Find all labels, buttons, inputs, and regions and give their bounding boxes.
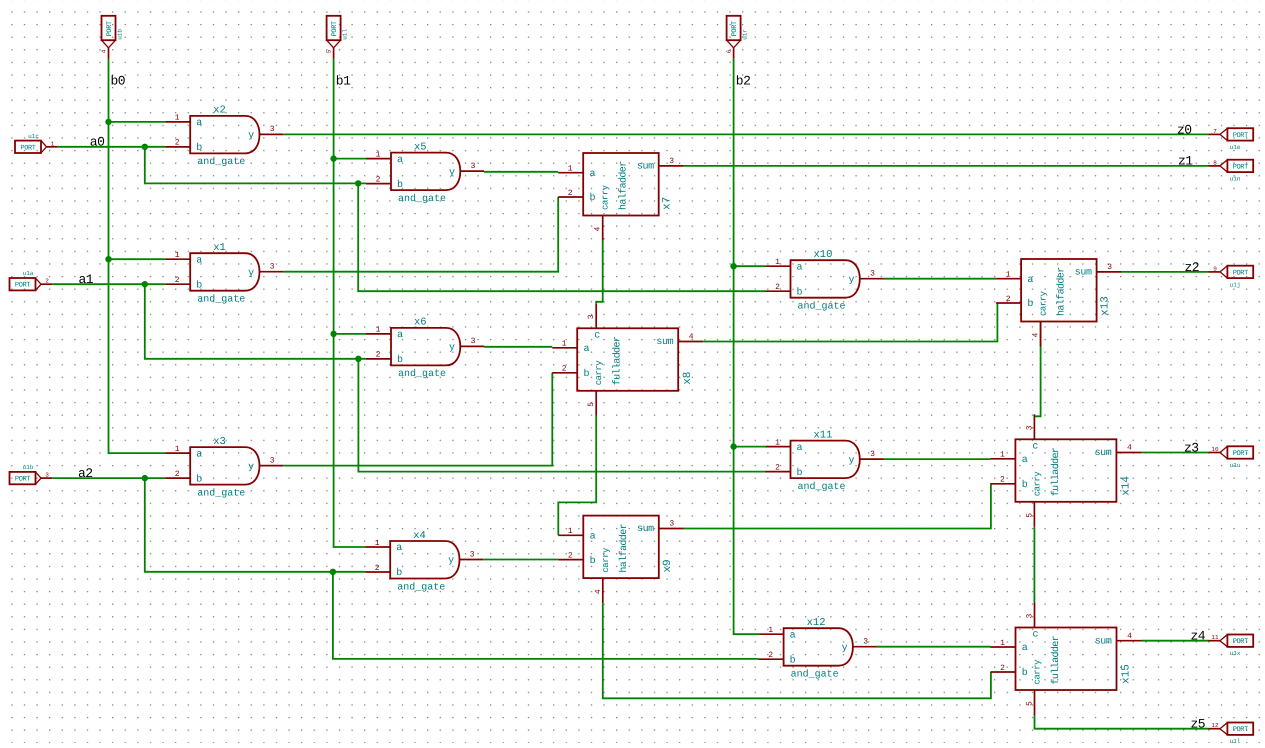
svg-text:11: 11 xyxy=(1211,634,1219,641)
svg-text:y: y xyxy=(248,268,254,279)
junction a1 branch xyxy=(142,281,148,287)
svg-text:x7: x7 xyxy=(662,197,674,210)
svg-text:u1b: u1b xyxy=(117,29,124,40)
svg-text:2: 2 xyxy=(376,351,381,360)
svg-text:3: 3 xyxy=(270,125,275,134)
svg-text:x3: x3 xyxy=(213,436,226,448)
svg-text:x13: x13 xyxy=(1100,296,1112,316)
full-adder X8 xyxy=(552,303,703,416)
svg-text:and_gate: and_gate xyxy=(798,481,846,493)
wire x10 output to x13 pin a xyxy=(884,278,997,280)
svg-text:PORT: PORT xyxy=(1233,450,1248,458)
svg-text:1: 1 xyxy=(175,114,180,123)
junction a0/x5b xyxy=(355,180,361,186)
wire x9 sum to x14 pin b xyxy=(684,484,991,529)
svg-text:and_gate: and_gate xyxy=(398,368,446,380)
svg-text:2: 2 xyxy=(568,189,573,198)
output port z0 xyxy=(1209,128,1254,151)
svg-text:8: 8 xyxy=(1213,159,1217,166)
svg-text:and_gate: and_gate xyxy=(197,156,245,168)
svg-text:u1r: u1r xyxy=(742,29,749,40)
svg-text:y: y xyxy=(448,556,454,567)
wire x5 output to x7 pin a xyxy=(484,171,558,173)
svg-text:u1l: u1l xyxy=(1230,738,1241,743)
svg-text:PORT: PORT xyxy=(15,282,30,290)
wire a1 down to x11 pin b xyxy=(358,359,765,472)
svg-text:a: a xyxy=(397,155,403,166)
svg-text:b0: b0 xyxy=(111,74,126,89)
svg-text:z0: z0 xyxy=(1177,122,1192,137)
and-gate X1 xyxy=(165,242,283,306)
svg-text:fulladder: fulladder xyxy=(612,336,624,385)
svg-text:b: b xyxy=(1027,298,1033,310)
input port b0 xyxy=(101,16,124,59)
svg-text:a: a xyxy=(584,344,590,355)
svg-text:1: 1 xyxy=(562,340,567,349)
wire b0 to x2 pin a xyxy=(109,121,166,123)
junction b1/x5a xyxy=(330,155,336,161)
svg-text:u1u: u1u xyxy=(1230,462,1241,469)
svg-text:c: c xyxy=(1032,441,1038,452)
junction a2 branch xyxy=(142,475,148,481)
and-gate X3 xyxy=(165,436,283,500)
half-adder X13 xyxy=(996,259,1122,347)
wire x15 carry to port z5 xyxy=(1035,715,1209,729)
wire x8 carry to x9 pin a xyxy=(558,416,596,536)
svg-text:fulladder: fulladder xyxy=(1050,447,1062,496)
and-gate X5 xyxy=(366,141,484,205)
svg-text:a: a xyxy=(196,118,202,129)
junction a2/x4b xyxy=(330,569,336,575)
svg-text:a: a xyxy=(1022,455,1028,466)
svg-text:7: 7 xyxy=(1213,128,1217,135)
svg-text:y: y xyxy=(449,167,455,178)
svg-text:PORT: PORT xyxy=(15,476,30,484)
svg-text:1: 1 xyxy=(376,326,381,335)
svg-text:z3: z3 xyxy=(1184,440,1199,455)
svg-text:z4: z4 xyxy=(1191,629,1206,644)
svg-text:u1x: u1x xyxy=(1230,650,1241,657)
and-gate X10 xyxy=(766,249,884,313)
svg-text:b: b xyxy=(1022,479,1028,491)
svg-text:3: 3 xyxy=(1026,614,1035,619)
svg-text:u1l: u1l xyxy=(342,29,349,40)
svg-text:carry: carry xyxy=(1033,659,1043,685)
svg-text:3: 3 xyxy=(1025,425,1034,430)
svg-text:b: b xyxy=(196,279,202,291)
svg-text:a: a xyxy=(1022,643,1028,654)
svg-text:1: 1 xyxy=(1000,451,1005,460)
wire x1 output to x7 pin b xyxy=(283,197,558,272)
svg-text:a: a xyxy=(1027,275,1033,286)
svg-text:3: 3 xyxy=(870,270,875,279)
svg-text:a: a xyxy=(196,449,202,460)
svg-text:x8: x8 xyxy=(682,372,694,385)
svg-text:4: 4 xyxy=(1127,632,1132,641)
wire net b0 vertical from port xyxy=(109,59,166,453)
svg-text:u1b: u1b xyxy=(23,464,34,471)
svg-text:4: 4 xyxy=(1127,444,1132,453)
svg-text:x1: x1 xyxy=(213,242,226,254)
svg-text:x4: x4 xyxy=(413,530,426,542)
svg-text:3: 3 xyxy=(669,520,674,529)
svg-text:a: a xyxy=(397,330,403,341)
svg-text:3: 3 xyxy=(270,456,275,465)
wire x2 output to port z0 xyxy=(283,133,1208,135)
wire x14 carry to x15 pin c xyxy=(1033,527,1035,603)
svg-text:y: y xyxy=(449,343,455,354)
junction b2/x11a xyxy=(730,443,736,449)
svg-text:b: b xyxy=(397,354,403,366)
output port z3 xyxy=(1209,446,1254,469)
svg-text:u1j: u1j xyxy=(1230,281,1241,288)
svg-text:y: y xyxy=(848,455,854,466)
svg-text:sum: sum xyxy=(637,162,654,173)
svg-text:b: b xyxy=(590,192,596,204)
svg-text:a: a xyxy=(797,262,803,273)
svg-text:sum: sum xyxy=(1095,448,1112,459)
svg-text:and_gate: and_gate xyxy=(197,294,245,306)
svg-text:4: 4 xyxy=(1032,333,1041,338)
svg-text:u1c: u1c xyxy=(28,133,39,140)
svg-text:a1: a1 xyxy=(79,272,94,287)
input port a1 xyxy=(10,270,53,290)
svg-text:b: b xyxy=(797,286,803,298)
svg-text:3: 3 xyxy=(45,472,49,479)
output port z4 xyxy=(1209,634,1254,657)
svg-text:a: a xyxy=(790,630,796,641)
svg-text:PORT: PORT xyxy=(1233,132,1248,140)
half-adder X7 xyxy=(558,153,684,241)
svg-text:z1: z1 xyxy=(1178,154,1193,169)
svg-text:b: b xyxy=(196,473,202,485)
full-adder X15 xyxy=(991,603,1142,716)
wire net b1 vertical from port to x4 pin a xyxy=(334,59,366,547)
svg-text:10: 10 xyxy=(1211,446,1219,453)
input port b2 xyxy=(726,16,749,59)
svg-text:3: 3 xyxy=(587,314,596,319)
svg-text:9: 9 xyxy=(1213,265,1217,272)
svg-text:b: b xyxy=(590,555,596,567)
output port z5 xyxy=(1209,722,1254,745)
and-gate X6 xyxy=(366,317,484,381)
svg-text:1: 1 xyxy=(375,539,380,548)
svg-text:2: 2 xyxy=(375,564,380,573)
wire x12 output to x15 pin a xyxy=(877,646,991,648)
svg-text:carry: carry xyxy=(594,360,604,386)
junction a0 branch xyxy=(142,144,148,150)
svg-text:sum: sum xyxy=(656,337,673,348)
svg-text:x2: x2 xyxy=(213,105,226,117)
svg-text:b: b xyxy=(196,142,202,154)
input port a0 xyxy=(15,133,58,153)
svg-text:u1n: u1n xyxy=(1230,175,1241,182)
junction b0/x2a xyxy=(105,119,111,125)
svg-text:3: 3 xyxy=(270,263,275,272)
svg-text:carry: carry xyxy=(1039,290,1049,316)
wire net a1 from port to x1 pin b xyxy=(52,283,165,285)
junction b0/x1a xyxy=(105,256,111,262)
svg-text:1: 1 xyxy=(768,626,773,635)
svg-text:sum: sum xyxy=(1095,636,1112,647)
svg-text:sum: sum xyxy=(1075,268,1092,279)
wire x14 sum to port z3 xyxy=(1141,452,1208,454)
svg-text:a2: a2 xyxy=(78,466,93,481)
svg-text:1: 1 xyxy=(568,165,573,174)
svg-text:4: 4 xyxy=(101,49,108,53)
svg-text:2: 2 xyxy=(1000,664,1005,673)
wire a0 branch down to row y=183.7 xyxy=(145,147,366,184)
svg-text:a: a xyxy=(196,255,202,266)
svg-text:PORT: PORT xyxy=(1233,163,1248,171)
svg-text:and_gate: and_gate xyxy=(398,193,446,205)
svg-text:6: 6 xyxy=(726,49,733,53)
wire x8 sum to x13 pin b xyxy=(703,303,997,342)
svg-text:1: 1 xyxy=(1006,271,1011,280)
wire b2 to x11 pin a xyxy=(734,446,766,448)
wire x7 sum to port z1 xyxy=(684,165,1209,167)
svg-text:a: a xyxy=(396,543,402,554)
svg-text:2: 2 xyxy=(1000,476,1005,485)
wire x7 carry to x8 pin c xyxy=(596,241,603,304)
junction b1/x6a xyxy=(330,331,336,337)
wire x4 output to x9 pin b xyxy=(483,559,558,561)
svg-text:2: 2 xyxy=(562,365,567,374)
svg-text:2: 2 xyxy=(175,470,180,479)
svg-text:1: 1 xyxy=(568,527,573,536)
svg-text:x15: x15 xyxy=(1121,664,1133,684)
svg-text:b: b xyxy=(797,467,803,479)
wire b0 to x1 pin a xyxy=(109,258,166,260)
svg-text:and_gate: and_gate xyxy=(798,301,846,313)
svg-text:b1: b1 xyxy=(336,74,351,89)
svg-text:5: 5 xyxy=(326,49,333,53)
junction b2/x10a xyxy=(730,263,736,269)
svg-text:carry: carry xyxy=(601,184,611,210)
wire a0 down to x10 pin b xyxy=(358,183,765,291)
full-adder X14 xyxy=(990,414,1141,527)
svg-text:5: 5 xyxy=(1026,701,1035,706)
svg-text:1: 1 xyxy=(775,258,780,267)
svg-text:x11: x11 xyxy=(814,429,833,441)
svg-text:z5: z5 xyxy=(1191,717,1206,732)
svg-text:5: 5 xyxy=(1025,513,1034,518)
svg-text:PORT: PORT xyxy=(20,144,35,152)
svg-text:PORT: PORT xyxy=(106,21,114,36)
svg-text:halfadder: halfadder xyxy=(1056,267,1068,316)
and-gate X4 xyxy=(365,530,483,594)
output port z1 xyxy=(1209,159,1254,182)
input port a2 xyxy=(10,464,53,484)
svg-text:2: 2 xyxy=(175,276,180,285)
svg-text:2: 2 xyxy=(768,651,773,660)
svg-text:carry: carry xyxy=(1032,471,1042,497)
svg-text:a: a xyxy=(797,443,803,454)
input port b1 xyxy=(326,16,349,59)
svg-text:b: b xyxy=(584,368,590,380)
svg-text:1: 1 xyxy=(175,251,180,260)
svg-text:PORT: PORT xyxy=(1233,269,1248,277)
wire a2 branch down to x4 pin b xyxy=(145,478,365,572)
svg-text:1: 1 xyxy=(775,438,780,447)
svg-text:2: 2 xyxy=(45,278,49,285)
wire b2 to x10 pin a xyxy=(734,265,766,267)
svg-text:2: 2 xyxy=(568,551,573,560)
svg-text:b: b xyxy=(1022,667,1028,679)
svg-text:4: 4 xyxy=(594,589,603,594)
svg-text:x12: x12 xyxy=(807,617,826,629)
svg-text:12: 12 xyxy=(1211,722,1219,729)
svg-text:and_gate: and_gate xyxy=(397,581,445,593)
wire x3 output to x8 pin b xyxy=(283,373,552,466)
svg-text:fulladder: fulladder xyxy=(1050,635,1062,684)
svg-text:2: 2 xyxy=(175,139,180,148)
svg-text:b: b xyxy=(790,654,796,666)
wire x6 output to x8 pin a xyxy=(484,346,552,348)
svg-text:and_gate: and_gate xyxy=(197,487,245,499)
svg-text:c: c xyxy=(594,330,600,341)
svg-text:3: 3 xyxy=(870,450,875,459)
wire b1 to x5 pin a xyxy=(334,158,366,160)
svg-text:3: 3 xyxy=(669,157,674,166)
svg-text:1: 1 xyxy=(175,445,180,454)
wire x11 output to x14 pin a xyxy=(884,458,991,460)
and-gate X12 xyxy=(759,617,877,681)
wire net a2 from port to x3 pin b xyxy=(52,477,165,479)
wire x15 sum to port z4 xyxy=(1142,640,1209,642)
svg-text:1: 1 xyxy=(376,150,381,159)
svg-text:x9: x9 xyxy=(662,559,674,572)
svg-text:y: y xyxy=(848,275,854,286)
svg-text:3: 3 xyxy=(1107,263,1112,272)
svg-text:a0: a0 xyxy=(90,135,105,150)
svg-text:2: 2 xyxy=(775,463,780,472)
svg-text:carry: carry xyxy=(601,547,611,573)
output port z2 xyxy=(1209,265,1254,288)
svg-text:1: 1 xyxy=(1000,639,1005,648)
junction a1/x6b xyxy=(355,356,361,362)
and-gate X2 xyxy=(165,105,283,169)
svg-text:a: a xyxy=(590,532,596,543)
svg-text:4: 4 xyxy=(594,227,603,232)
svg-text:2: 2 xyxy=(775,283,780,292)
svg-text:x6: x6 xyxy=(414,317,427,329)
svg-text:u1a: u1a xyxy=(23,270,34,277)
half-adder X9 xyxy=(558,516,684,604)
svg-text:2: 2 xyxy=(376,175,381,184)
wire x13 sum to port z2 xyxy=(1122,271,1209,273)
svg-text:a: a xyxy=(590,169,596,180)
svg-text:2: 2 xyxy=(1006,295,1011,304)
svg-text:and_gate: and_gate xyxy=(791,669,839,681)
svg-text:sum: sum xyxy=(637,524,654,535)
svg-text:b: b xyxy=(396,567,402,579)
svg-text:b: b xyxy=(397,179,403,191)
svg-text:y: y xyxy=(248,462,254,473)
wire x13 carry to x14 pin c xyxy=(1034,322,1040,417)
wire net b2 vertical from port to x12 pin a xyxy=(734,59,759,634)
svg-text:x10: x10 xyxy=(814,249,833,261)
svg-text:halfadder: halfadder xyxy=(618,523,630,572)
svg-text:u1e: u1e xyxy=(1230,144,1241,151)
wire a2 down to x12 pin b xyxy=(333,572,759,659)
svg-text:3: 3 xyxy=(470,550,475,559)
svg-text:PORT: PORT xyxy=(331,21,339,36)
svg-text:y: y xyxy=(248,131,254,142)
wire a1 branch down to x6 pin b xyxy=(145,284,366,359)
svg-text:b2: b2 xyxy=(736,74,751,89)
svg-text:PORT: PORT xyxy=(1233,726,1248,734)
svg-text:y: y xyxy=(842,643,848,654)
svg-text:x5: x5 xyxy=(414,141,427,153)
svg-text:c: c xyxy=(1032,630,1038,641)
svg-text:3: 3 xyxy=(471,162,476,171)
svg-text:PORT: PORT xyxy=(731,21,739,36)
svg-text:x14: x14 xyxy=(1120,476,1132,496)
svg-text:1: 1 xyxy=(51,140,55,147)
wire net a0 from port to x2 pin b xyxy=(58,146,166,148)
wire b1 to x6 pin a xyxy=(334,333,366,335)
svg-text:z2: z2 xyxy=(1185,260,1200,275)
svg-text:halfadder: halfadder xyxy=(618,161,630,210)
svg-text:3: 3 xyxy=(471,337,476,346)
wire x9 carry to x15 pin b xyxy=(603,603,991,698)
svg-text:3: 3 xyxy=(863,638,868,647)
svg-text:PORT: PORT xyxy=(1233,638,1248,646)
and-gate X11 xyxy=(766,429,884,493)
svg-text:5: 5 xyxy=(587,402,596,407)
svg-text:4: 4 xyxy=(689,333,694,342)
